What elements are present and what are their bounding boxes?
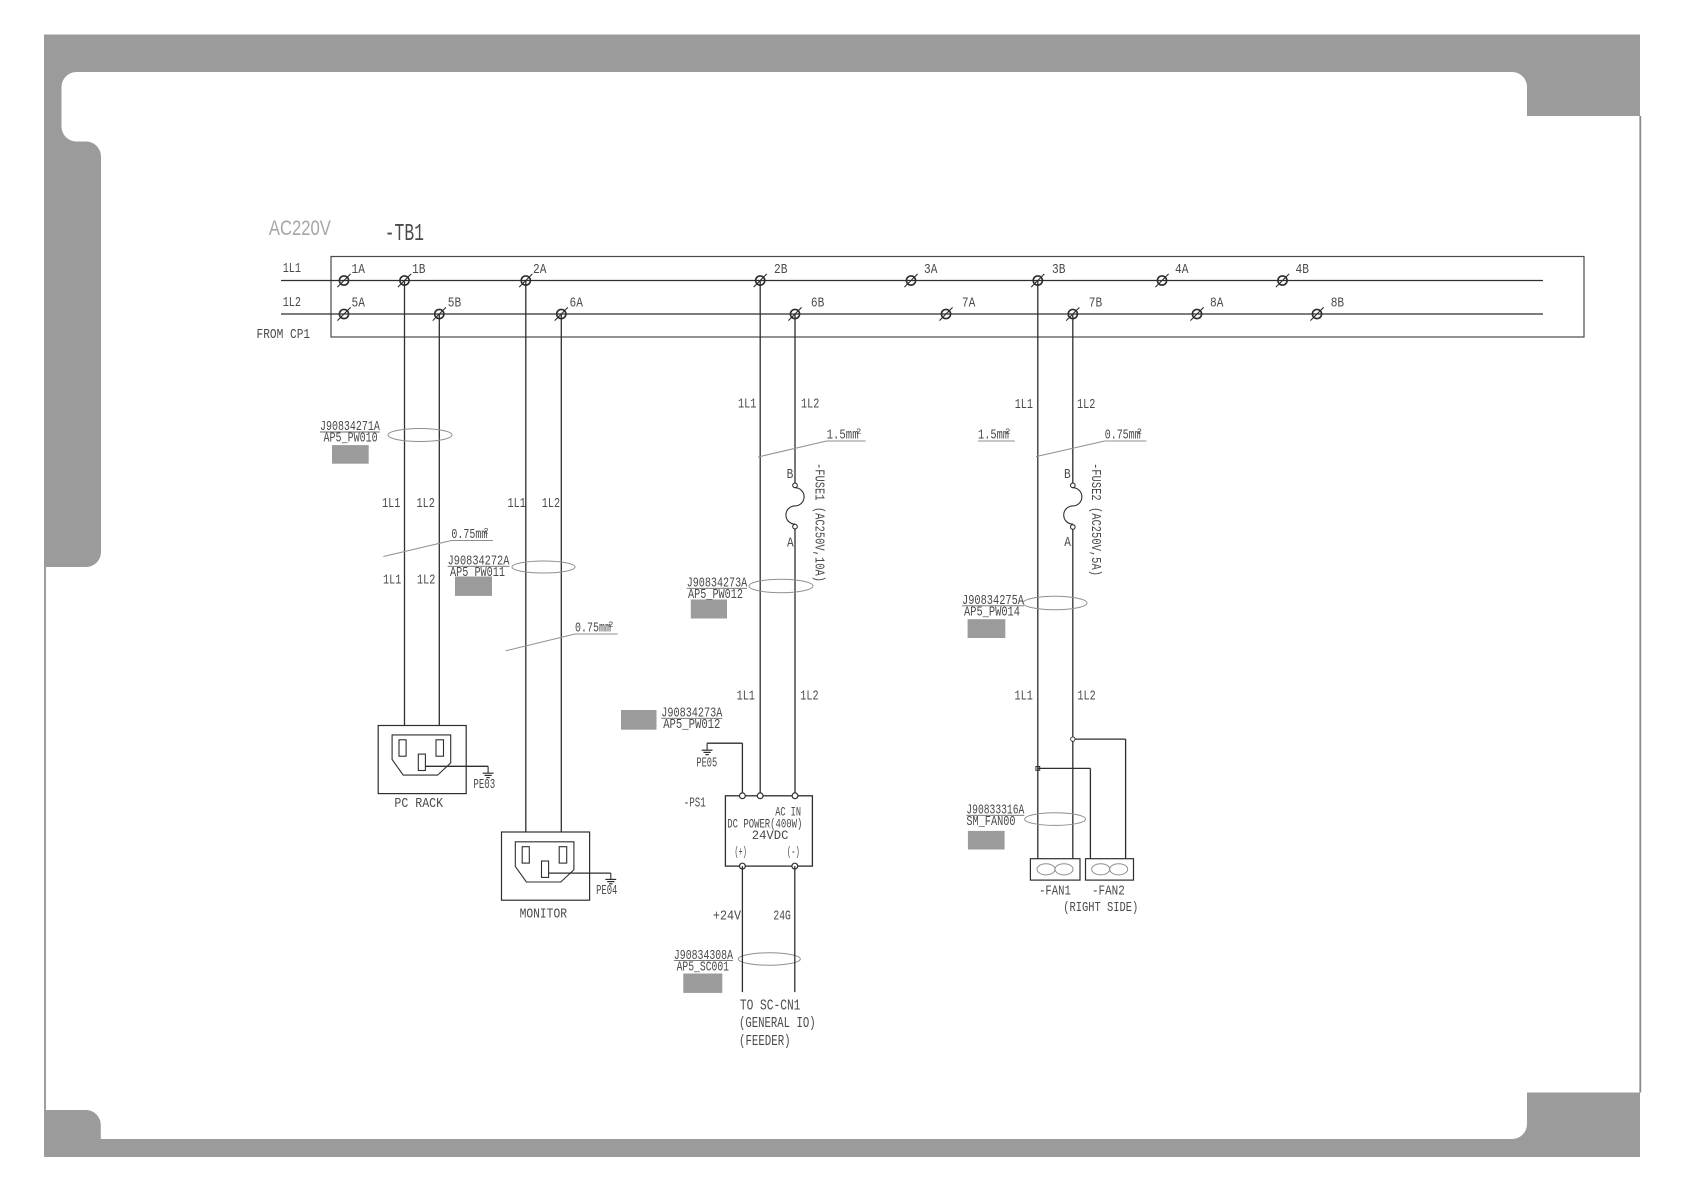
svg-text:PE04: PE04	[596, 883, 617, 899]
svg-text:4A: 4A	[1175, 262, 1189, 278]
svg-text:1L1: 1L1	[383, 573, 401, 589]
svg-text:3B: 3B	[1052, 262, 1065, 278]
terminal block TB1 outline	[331, 257, 1584, 338]
svg-text:-FAN1: -FAN1	[1039, 884, 1071, 900]
wire MONITOR earth to PE04	[549, 872, 611, 874]
svg-text:+24V: +24V	[713, 909, 742, 925]
svg-text:2: 2	[1137, 427, 1142, 437]
svg-text:-FUSE2 (AC250V,5A): -FUSE2 (AC250V,5A)	[1087, 463, 1103, 576]
svg-text:2: 2	[1005, 427, 1010, 437]
terminal 6B	[788, 296, 824, 321]
terminal 1A	[337, 262, 365, 287]
wire down to FAN2 (1L1)	[1089, 768, 1091, 858]
terminal 8B	[1310, 296, 1344, 321]
svg-text:24G: 24G	[773, 909, 791, 925]
cable label J90834273A AP5_PW012 (second)	[621, 706, 723, 734]
junction on 7B wire	[1071, 737, 1075, 741]
terminal 6A	[555, 296, 584, 321]
svg-text:1L1: 1L1	[738, 397, 756, 413]
svg-text:PC RACK: PC RACK	[394, 796, 443, 812]
terminal 2B	[754, 262, 788, 287]
wire 3B to FAN1 (1L1)	[1037, 281, 1039, 859]
svg-text:1L2: 1L2	[542, 496, 560, 512]
svg-text:B: B	[787, 467, 794, 483]
terminal 8A	[1190, 296, 1223, 321]
cable J90834273A ellipse	[749, 579, 813, 592]
terminal 3B	[1031, 262, 1065, 287]
svg-text:1L2: 1L2	[801, 397, 819, 413]
wire 3B branch to FAN2	[1038, 767, 1091, 769]
ground PE03	[473, 766, 495, 793]
svg-text:B: B	[1064, 467, 1071, 483]
svg-text:(+): (+)	[735, 845, 747, 860]
svg-text:-FUSE1 (AC250V,10A): -FUSE1 (AC250V,10A)	[811, 463, 827, 582]
svg-text:1L2: 1L2	[1077, 688, 1095, 704]
svg-text:(-): (-)	[787, 845, 800, 860]
svg-text:1L1: 1L1	[283, 261, 301, 277]
svg-text:-PS1: -PS1	[684, 795, 706, 811]
terminal 5B	[433, 296, 461, 321]
wire 5B to PC RACK (1L2)	[438, 314, 440, 726]
svg-text:24VDC: 24VDC	[752, 828, 789, 843]
svg-text:1B: 1B	[412, 262, 425, 278]
svg-text:(RIGHT SIDE): (RIGHT SIDE)	[1063, 900, 1138, 916]
ground PE04	[596, 873, 617, 899]
cable label J90834308A AP5_SC001	[674, 948, 734, 993]
wire 2B to PS1 (1L1)	[759, 281, 761, 796]
cable J90834271A ellipse	[388, 429, 452, 442]
svg-text:1L1: 1L1	[508, 496, 526, 512]
svg-text:7A: 7A	[962, 296, 976, 312]
fan FAN2	[1086, 859, 1134, 880]
fan FAN1	[1030, 859, 1080, 880]
svg-text:1L1: 1L1	[1015, 397, 1033, 413]
svg-text:TO SC-CN1: TO SC-CN1	[740, 997, 801, 1014]
wire PC RACK earth to PE03	[425, 765, 488, 767]
svg-text:-FAN2: -FAN2	[1092, 884, 1125, 900]
cable J90834272A ellipse	[512, 561, 575, 573]
svg-text:FROM CP1: FROM CP1	[257, 327, 311, 343]
terminal 4B	[1276, 262, 1309, 287]
wire 1L2 bus	[281, 313, 1543, 315]
svg-text:1L2: 1L2	[1077, 397, 1095, 413]
svg-text:2: 2	[484, 527, 489, 537]
gauge 0.75mm2 leader to 3B wire	[1036, 427, 1146, 457]
svg-text:MONITOR: MONITOR	[520, 907, 568, 923]
svg-text:2: 2	[856, 427, 861, 437]
connector PC RACK (IEC inlet)	[378, 726, 466, 794]
svg-text:1L2: 1L2	[800, 689, 818, 705]
gauge 0.75mm2 leader to 2A/6A pair	[506, 620, 618, 651]
svg-text:2B: 2B	[774, 262, 787, 278]
svg-text:1L1: 1L1	[737, 689, 755, 705]
wire 1B to PC RACK (1L1)	[404, 281, 406, 726]
svg-text:6A: 6A	[570, 296, 584, 312]
terminal 7B	[1066, 296, 1102, 321]
PS1 terminals	[740, 793, 798, 869]
svg-text:-TB1: -TB1	[385, 221, 424, 248]
junction on 3B wire	[1036, 767, 1040, 771]
wire 24G	[794, 866, 796, 992]
terminal 7A	[939, 296, 975, 321]
svg-text:5B: 5B	[448, 296, 461, 312]
wire FUSE2 to FAN1 (1L2)	[1072, 529, 1074, 859]
wire 7B to FUSE2 (1L2)	[1072, 314, 1074, 483]
cable J90834308A ellipse	[738, 953, 800, 965]
svg-text:6B: 6B	[811, 296, 824, 312]
wire 1L1 bus	[281, 280, 1543, 282]
wire down to FAN2	[1125, 739, 1127, 859]
svg-text:SM_FAN00: SM_FAN00	[966, 814, 1015, 830]
svg-text:(GENERAL IO): (GENERAL IO)	[739, 1015, 816, 1032]
cable label J90834275A AP5_PW014	[962, 593, 1024, 638]
wire PS1 earth horizontal	[707, 742, 742, 744]
terminal 4A	[1155, 262, 1188, 287]
cable label J90834273A AP5_PW012	[687, 576, 748, 619]
svg-text:3A: 3A	[924, 262, 938, 278]
cable J90834275A ellipse	[1023, 596, 1087, 609]
svg-text:AC220V: AC220V	[269, 217, 331, 240]
terminal 2A	[519, 262, 547, 287]
svg-text:A: A	[1064, 535, 1071, 551]
svg-text:1A: 1A	[352, 262, 366, 278]
svg-text:7B: 7B	[1089, 296, 1102, 312]
wire 6A to MONITOR (1L2)	[560, 314, 562, 832]
svg-text:4B: 4B	[1296, 262, 1309, 278]
wire 6B to FUSE1 (1L2)	[794, 314, 796, 483]
wire +24V	[741, 866, 743, 992]
gauge 0.75mm2 leader to 1B/5B pair	[383, 527, 493, 557]
wire PS1 earth up	[741, 743, 743, 796]
cable J90833316A ellipse	[1025, 813, 1086, 826]
ground PE05	[696, 743, 717, 771]
svg-text:2A: 2A	[533, 262, 547, 278]
svg-text:A: A	[787, 536, 794, 552]
svg-text:AP5_PW012: AP5_PW012	[663, 717, 720, 733]
svg-text:8A: 8A	[1210, 296, 1224, 312]
wire 7B branch to FAN2	[1073, 738, 1126, 740]
svg-text:2: 2	[608, 620, 613, 630]
terminal 5A	[337, 296, 365, 321]
terminal 1B	[398, 262, 426, 287]
power supply PS1 box	[725, 796, 812, 866]
gauge 1.5mm2 at 3B wire	[978, 427, 1015, 444]
svg-text:PE03: PE03	[473, 777, 495, 793]
svg-text:PE05: PE05	[696, 756, 717, 772]
connector MONITOR (IEC inlet)	[502, 832, 590, 900]
svg-text:1L2: 1L2	[417, 573, 435, 589]
wire FUSE1 to PS1 (1L2)	[794, 529, 796, 796]
svg-text:1L2: 1L2	[417, 496, 435, 512]
cable label J90834272A AP5_PW011	[448, 554, 510, 596]
fuse FUSE1	[786, 483, 804, 529]
terminal 3A	[904, 262, 937, 287]
wire 2A to MONITOR (1L1)	[525, 281, 527, 833]
gauge 1.5mm2 leader to 2B wire	[758, 427, 866, 457]
svg-text:(FEEDER): (FEEDER)	[739, 1033, 791, 1050]
svg-text:AP5_PW010: AP5_PW010	[324, 431, 378, 447]
fuse FUSE2	[1064, 483, 1082, 529]
svg-text:1L2: 1L2	[283, 295, 301, 311]
svg-text:5A: 5A	[352, 296, 366, 312]
svg-text:8B: 8B	[1331, 296, 1344, 312]
svg-text:1L1: 1L1	[382, 496, 400, 512]
cable label J90833316A SM_FAN00	[966, 803, 1024, 850]
svg-text:1L1: 1L1	[1015, 688, 1033, 704]
svg-text:AP5_PW014: AP5_PW014	[964, 605, 1020, 621]
svg-text:AP5_SC001: AP5_SC001	[677, 959, 729, 975]
cable label J90834271A AP5_PW010	[320, 419, 380, 464]
